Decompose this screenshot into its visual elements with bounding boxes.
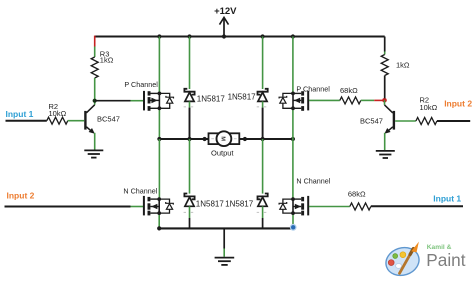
svg-text:Output: Output bbox=[211, 148, 234, 157]
mosfet M1 P Channel left bbox=[124, 80, 161, 111]
svg-text:10kΩ: 10kΩ bbox=[420, 103, 438, 112]
Input 1 label left bbox=[6, 109, 34, 119]
wire output node to M4 drain bbox=[292, 139, 294, 199]
svg-text:1kΩ: 1kΩ bbox=[396, 60, 410, 69]
wire Input 2 left green to gate bbox=[131, 206, 144, 208]
wire Input 2 right bbox=[437, 120, 470, 122]
wire M4 gate to 68k bottom bbox=[309, 206, 350, 208]
resistor 1kOhm right vertical bbox=[381, 55, 410, 76]
logo text Kamil & bbox=[427, 244, 452, 251]
mosfet M2 P Channel right bbox=[291, 85, 330, 111]
svg-text:1N5817: 1N5817 bbox=[197, 94, 226, 103]
body diode of M2 bbox=[279, 93, 293, 108]
bottom rail wire bbox=[157, 226, 293, 230]
node blue dot bottom right bbox=[290, 224, 297, 231]
resistor 68kOhm bottom right bbox=[348, 190, 371, 210]
node junction collector Q1 bbox=[93, 99, 97, 103]
top rail wire +12V net bbox=[95, 35, 385, 37]
diode D3 1N5817 bottom left bbox=[184, 139, 225, 228]
resistor R2 10kOhm left bbox=[47, 102, 68, 124]
output node wire left bbox=[157, 137, 208, 141]
wire 68k to node green bbox=[361, 99, 374, 101]
svg-text:10kΩ: 10kΩ bbox=[49, 109, 67, 118]
svg-text:Input 2: Input 2 bbox=[7, 191, 35, 201]
svg-text:N Channel: N Channel bbox=[296, 176, 330, 185]
wire rail right corner down bbox=[384, 37, 386, 52]
wire base Q2 to R2 right bbox=[395, 120, 416, 122]
body diode of M3 bbox=[159, 199, 173, 213]
wire 1k bottom to node bbox=[384, 76, 386, 99]
wire emitter Q2 to ground bbox=[384, 133, 386, 150]
node junction red Q2 collector bbox=[382, 98, 387, 103]
wire collector node to P gate green part bbox=[131, 100, 144, 102]
logo palette icon Kamil & Paint bbox=[382, 242, 422, 280]
Input 2 label right bbox=[444, 99, 472, 109]
wire output node to M3 drain bbox=[158, 139, 160, 199]
svg-text:68kΩ: 68kΩ bbox=[340, 86, 358, 95]
svg-text:Input 1: Input 1 bbox=[6, 109, 34, 119]
diode D2 1N5817 top right bbox=[228, 37, 268, 140]
ground below Q1 bbox=[84, 150, 103, 157]
transistor Q1 BC547 NPN left bbox=[85, 105, 120, 134]
wire M1 drain to output node bbox=[158, 108, 160, 139]
svg-text:BC547: BC547 bbox=[360, 117, 383, 126]
wire M2 gate to 68k bbox=[309, 99, 340, 101]
wire R2 to base Q1 bbox=[68, 120, 84, 122]
wire Input 2 left black bbox=[5, 206, 131, 208]
body diode of M4 bbox=[279, 199, 293, 213]
wire red segment to collector node Q2 bbox=[374, 99, 383, 101]
diode D1 1N5817 top left bbox=[184, 37, 226, 140]
motor M Output bbox=[209, 131, 240, 157]
svg-text:1kΩ: 1kΩ bbox=[100, 55, 114, 64]
svg-text:Input 2: Input 2 bbox=[444, 99, 472, 109]
svg-text:+12V: +12V bbox=[214, 6, 237, 17]
wire collector node to P gate black part bbox=[95, 100, 131, 102]
resistor R3 1kOhm vertical bbox=[91, 49, 114, 78]
svg-text:1N5817: 1N5817 bbox=[228, 93, 257, 102]
Input 2 label left bbox=[7, 191, 35, 201]
ground center bbox=[215, 258, 235, 265]
wire emitter Q1 to ground bbox=[94, 133, 96, 150]
svg-text:Paint: Paint bbox=[426, 250, 465, 270]
output node wire right bbox=[239, 137, 295, 141]
svg-text:P Channel: P Channel bbox=[124, 80, 158, 89]
+12V supply arrow bbox=[214, 6, 237, 37]
wire Input 1 bottom right bbox=[371, 205, 463, 207]
wire bottom rail to center ground bbox=[223, 228, 225, 256]
svg-text:68kΩ: 68kΩ bbox=[348, 190, 366, 199]
mosfet M3 N Channel left bbox=[123, 187, 161, 216]
wire Input 1 left bbox=[6, 120, 47, 122]
wire green R3 to collector node bbox=[94, 78, 96, 105]
Input 1 label right bbox=[433, 193, 461, 203]
ground below Q2 bbox=[376, 151, 395, 158]
svg-text:BC547: BC547 bbox=[97, 114, 120, 123]
svg-text:N Channel: N Channel bbox=[123, 187, 157, 196]
wire M3 source to bottom rail bbox=[158, 213, 160, 227]
junction dots on top rail bbox=[157, 34, 295, 38]
wire M4 source to bottom rail bbox=[292, 213, 294, 227]
wire rail to M1 source bbox=[158, 37, 160, 94]
svg-text:M: M bbox=[220, 136, 226, 141]
svg-text:Input 1: Input 1 bbox=[433, 193, 461, 203]
wire M2 drain to output node bbox=[292, 108, 294, 139]
wire green to R3 bbox=[94, 47, 96, 58]
wire rail to M2 source bbox=[292, 37, 294, 94]
svg-text:1N5817: 1N5817 bbox=[196, 199, 225, 208]
wire red segment left column bbox=[94, 36, 96, 47]
logo text Paint bbox=[426, 250, 465, 270]
transistor Q2 BC547 NPN right bbox=[360, 100, 394, 134]
resistor 68kOhm top right bbox=[340, 86, 361, 104]
body diode of M1 bbox=[159, 93, 173, 108]
wire green to 1k bbox=[384, 52, 386, 55]
resistor R2 10kOhm right bbox=[416, 95, 438, 124]
svg-text:1N5817: 1N5817 bbox=[225, 200, 254, 209]
diode D4 1N5817 bottom right bbox=[225, 139, 268, 228]
mosfet M4 N Channel right bbox=[291, 176, 331, 215]
